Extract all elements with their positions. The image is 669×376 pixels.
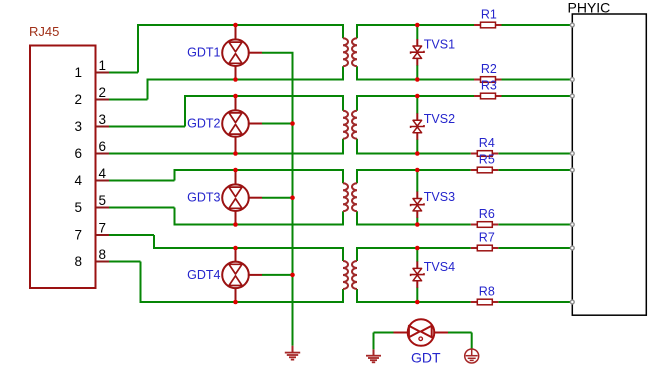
wire T3 top rail to R5: [356, 169, 471, 171]
svg-text:TVS1: TVS1: [424, 38, 455, 52]
junction TVS3 bottom: [415, 222, 420, 227]
label R5: [479, 153, 495, 167]
wire net 5 from RJ45 pin 5 to transformer rail: [109, 208, 344, 225]
TVS diode TVS1: [411, 25, 424, 80]
wire net 8 from RJ45 pin 8 to transformer rail: [109, 262, 344, 303]
net label 4: [99, 166, 107, 181]
wire T1 bottom rail to R2: [356, 79, 474, 81]
IC block PHYIC: [572, 14, 646, 315]
gas discharge tube GDT2: [222, 96, 262, 154]
wire net 7 from RJ45 pin 7 to transformer rail: [109, 235, 344, 248]
wire R5 to PHYIC: [498, 169, 572, 171]
chassis earth symbol (circled): [465, 349, 479, 363]
wire R4 to PHYIC: [498, 153, 572, 155]
svg-text:R3: R3: [481, 79, 497, 93]
svg-text:3: 3: [74, 119, 82, 134]
net label 3: [99, 112, 107, 127]
svg-text:GDT1: GDT1: [187, 46, 220, 60]
wire R1 to PHYIC: [502, 24, 573, 26]
svg-text:8: 8: [74, 254, 82, 269]
net label 7: [99, 221, 107, 236]
label R8: [479, 285, 495, 299]
svg-text:PHYIC: PHYIC: [568, 0, 611, 15]
wire net 1 from RJ45 pin 1 to transformer rail: [109, 25, 344, 73]
transformer T3 left winding: [343, 169, 348, 226]
resistor R1: [474, 22, 502, 28]
label TVS4: [424, 260, 455, 274]
gas discharge tube GDT1: [222, 25, 262, 80]
resistor R5: [471, 167, 499, 173]
net label 6: [99, 139, 107, 154]
svg-text:R4: R4: [479, 136, 495, 150]
net label 5: [99, 193, 107, 208]
PHYIC pin dot (net to R6): [570, 223, 574, 227]
label GDT2: [187, 117, 220, 131]
svg-text:4: 4: [74, 173, 82, 188]
resistor R2: [474, 77, 502, 83]
label GDT4: [187, 268, 220, 282]
resistor R4: [471, 151, 499, 157]
svg-text:8: 8: [99, 247, 107, 262]
svg-text:TVS3: TVS3: [424, 190, 455, 204]
svg-text:2: 2: [99, 85, 107, 100]
RJ45 pin 8 (stub + pin number): [74, 254, 110, 269]
svg-text:GDT4: GDT4: [187, 268, 220, 282]
wire net 3 from RJ45 pin 3 to transformer rail: [109, 96, 344, 127]
svg-text:R5: R5: [479, 153, 495, 167]
resistor R6: [471, 222, 499, 228]
junction GDT3 top: [233, 168, 238, 173]
junction TVS1 bottom: [415, 77, 420, 82]
transformer T1 right winding: [352, 24, 357, 81]
transformer T4 left winding: [343, 247, 348, 303]
svg-text:6: 6: [99, 139, 107, 154]
PHYIC pin dot (net to R3): [570, 94, 574, 98]
net label 2: [99, 85, 107, 100]
wire net 2 from RJ45 pin 2 to transformer rail: [109, 80, 344, 100]
svg-text:TVS2: TVS2: [424, 112, 455, 126]
transformer T4 right winding: [352, 247, 357, 303]
label PHYIC: [568, 0, 611, 15]
label R2: [481, 62, 497, 76]
svg-text:1: 1: [99, 58, 107, 73]
label GDT: [411, 350, 441, 366]
svg-text:5: 5: [99, 193, 107, 208]
label TVS1: [424, 38, 455, 52]
PHYIC pin dot (net to R8): [570, 300, 574, 304]
wire net 6 from RJ45 pin 6 to transformer rail: [109, 153, 344, 155]
TVS diode TVS2: [411, 96, 424, 154]
label TVS2: [424, 112, 455, 126]
gas discharge tube GDT (3-electrode, bottom): [393, 319, 448, 346]
junction TVS2 bottom: [415, 151, 420, 156]
PHYIC pin dot (net to R5): [570, 168, 574, 172]
junction GDT1 bottom: [233, 77, 238, 82]
wire GDT4 to ground bus: [262, 274, 293, 276]
gas discharge tube GDT3: [222, 170, 262, 225]
svg-text:5: 5: [74, 200, 82, 215]
svg-text:RJ45: RJ45: [29, 24, 59, 39]
label R3: [481, 79, 497, 93]
RJ45 pin 7 (stub + pin number): [74, 227, 110, 242]
junction GDT1 top: [233, 23, 238, 28]
wire ground bus vertical: [292, 53, 294, 346]
wire R2 to PHYIC: [502, 79, 573, 81]
junction GDT3 bottom: [233, 222, 238, 227]
junction GDT2 bottom: [233, 151, 238, 156]
label TVS3: [424, 190, 455, 204]
wire GDT right to chassis earth: [448, 333, 472, 350]
resistor R8: [471, 299, 499, 305]
svg-text:TVS4: TVS4: [424, 260, 455, 274]
transformer T1 left winding: [343, 24, 348, 81]
junction TVS3 top: [415, 168, 420, 173]
RJ45 pin 5 (stub + pin number): [74, 200, 110, 215]
svg-text:3: 3: [99, 112, 107, 127]
junction TVS4 top: [415, 246, 420, 251]
PHYIC pin dot (net to R2): [570, 78, 574, 82]
gas discharge tube GDT4: [222, 248, 262, 302]
PHYIC pin dot (net to R4): [570, 152, 574, 156]
wire R3 to PHYIC: [502, 95, 573, 97]
transformer T3 right winding: [352, 169, 357, 226]
junction GDT4 bottom: [233, 300, 238, 305]
svg-text:R8: R8: [479, 285, 495, 299]
svg-text:GDT3: GDT3: [187, 191, 220, 205]
ground symbol (left of GDT): [366, 349, 381, 362]
svg-text:6: 6: [74, 146, 82, 161]
TVS diode TVS3: [411, 170, 424, 225]
PHYIC pin dot (net to R1): [570, 23, 574, 27]
RJ45 pin 6 (stub + pin number): [74, 146, 110, 161]
junction TVS4 bottom: [415, 300, 420, 305]
net label 8: [99, 247, 107, 262]
PHYIC pin dot (net to R7): [570, 246, 574, 250]
TVS diode TVS4: [411, 248, 424, 302]
RJ45 pin 1 (stub + pin number): [74, 65, 110, 80]
wire T4 bottom rail to R8: [356, 301, 471, 303]
wire T3 bottom rail to R6: [356, 224, 471, 226]
resistor R3: [474, 93, 502, 99]
svg-text:R7: R7: [479, 231, 495, 245]
junction GDT2 top: [233, 94, 238, 99]
wire GDT left to earth ground: [374, 333, 394, 350]
svg-text:2: 2: [74, 92, 82, 107]
svg-text:7: 7: [99, 221, 107, 236]
label GDT1: [187, 46, 220, 60]
wire T2 bottom rail to R4: [356, 153, 471, 155]
label RJ45: [29, 24, 59, 39]
svg-text:R2: R2: [481, 62, 497, 76]
ground symbol (bus bottom): [285, 346, 300, 360]
junction bus/GDT2: [290, 121, 295, 126]
svg-text:R1: R1: [481, 8, 497, 22]
svg-text:4: 4: [99, 166, 107, 181]
wire R7 to PHYIC: [498, 247, 572, 249]
net label 1: [99, 58, 107, 73]
label R6: [479, 207, 495, 221]
wire T4 top rail to R7: [356, 247, 471, 249]
wire net 4 from RJ45 pin 4 to transformer rail: [109, 170, 344, 181]
RJ45 pin 2 (stub + pin number): [74, 92, 110, 107]
wire R6 to PHYIC: [498, 224, 572, 226]
wire T1 top rail to R1: [356, 24, 474, 26]
junction TVS2 top: [415, 94, 420, 99]
connector RJ45 body: [30, 46, 96, 289]
svg-text:7: 7: [74, 227, 82, 242]
svg-text:GDT2: GDT2: [187, 117, 220, 131]
svg-text:1: 1: [74, 65, 82, 80]
wire GDT2 to ground bus: [262, 123, 293, 125]
junction GDT4 top: [233, 246, 238, 251]
label R4: [479, 136, 495, 150]
wire T2 top rail to R3: [356, 95, 474, 97]
RJ45 pin 3 (stub + pin number): [74, 119, 110, 134]
RJ45 pin 4 (stub + pin number): [74, 173, 110, 188]
transformer T2 left winding: [343, 95, 348, 155]
svg-text:R6: R6: [479, 207, 495, 221]
wire GDT3 to ground bus: [262, 197, 293, 199]
wire GDT1 to ground bus: [262, 52, 294, 54]
junction TVS1 top: [415, 23, 420, 28]
junction bus/GDT3: [290, 195, 295, 200]
label R1: [481, 8, 497, 22]
junction bus/GDT4: [290, 273, 295, 278]
svg-text:GDT: GDT: [411, 350, 441, 366]
resistor R7: [471, 245, 499, 251]
wire R8 to PHYIC: [498, 301, 572, 303]
transformer T2 right winding: [352, 95, 357, 155]
label GDT3: [187, 191, 220, 205]
label R7: [479, 231, 495, 245]
